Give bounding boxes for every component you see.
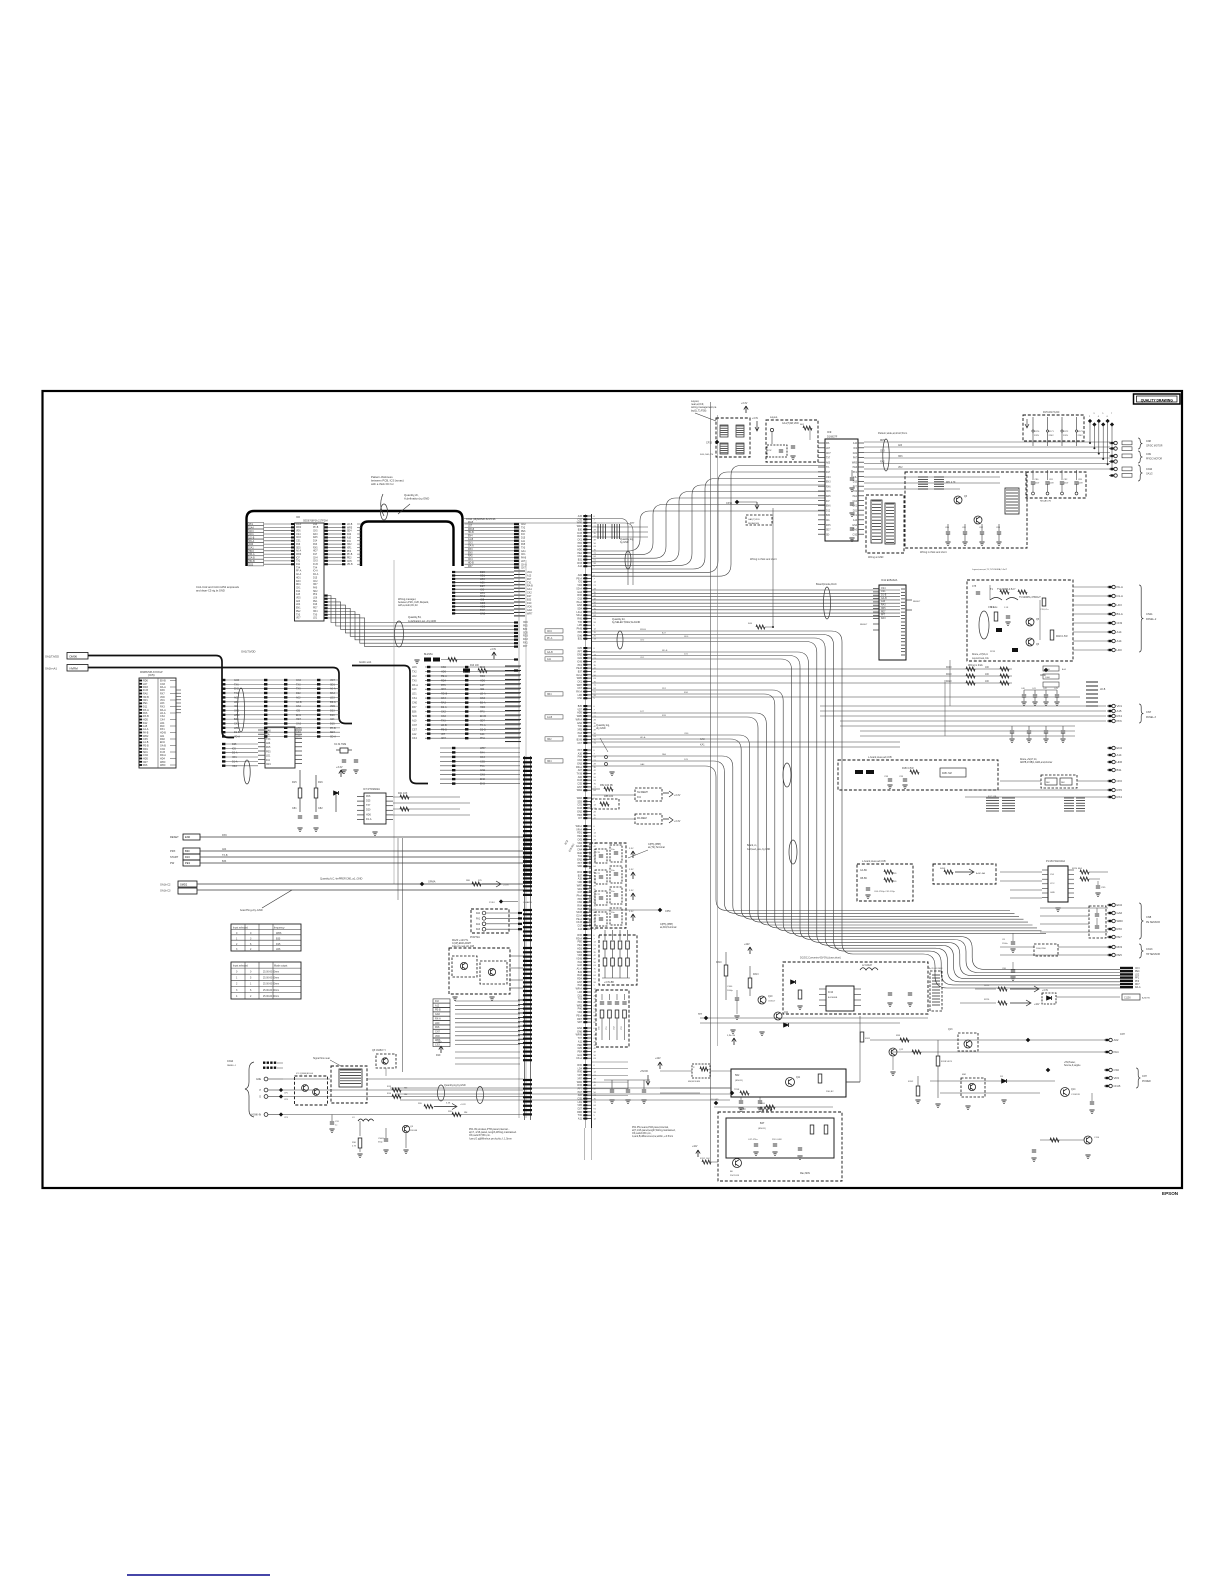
svg-text:+3.3V: +3.3V bbox=[741, 402, 748, 405]
svg-text:FA2: FA2 bbox=[476, 923, 481, 926]
wires PE bbox=[1040, 908, 1108, 932]
svg-text:R780: R780 bbox=[740, 1109, 746, 1111]
svg-text:TX0: TX0 bbox=[296, 688, 301, 691]
connector CN9 boxed rows bbox=[248, 522, 294, 566]
svg-text:MM,MODEM: MM,MODEM bbox=[688, 1081, 700, 1083]
ground MA bbox=[452, 997, 494, 1000]
svg-text:TX2: TX2 bbox=[412, 671, 417, 674]
svg-text:TX2: TX2 bbox=[521, 528, 526, 530]
svg-text:PA7: PA7 bbox=[412, 706, 417, 709]
ground P1 bbox=[1055, 908, 1060, 911]
svg-text:3.3V: 3.3V bbox=[629, 890, 634, 892]
svg-text:PF-A: PF-A bbox=[296, 570, 302, 573]
resistor labels right bbox=[1043, 666, 1067, 687]
svg-text:A11: A11 bbox=[578, 1118, 583, 1121]
svg-text:SD7: SD7 bbox=[577, 1021, 582, 1024]
svg-text:CS6: CS6 bbox=[441, 666, 446, 669]
capacitor bank CM1 bbox=[1026, 470, 1086, 503]
svg-text:TX7: TX7 bbox=[366, 804, 371, 807]
svg-text:NM: NM bbox=[464, 1112, 468, 1114]
svg-text:PE-A: PE-A bbox=[441, 675, 447, 678]
svg-text:LD1: LD1 bbox=[480, 591, 485, 595]
svg-text:D15: D15 bbox=[330, 723, 335, 726]
svg-text:D16837F: D16837F bbox=[827, 436, 838, 439]
svg-text:RD6: RD6 bbox=[480, 675, 486, 678]
svg-text:PA6: PA6 bbox=[143, 764, 148, 767]
svg-text:TP08: TP08 bbox=[734, 1089, 740, 1091]
svg-text:A10: A10 bbox=[347, 536, 352, 539]
svg-text:VCC: VCC bbox=[1050, 883, 1055, 885]
svg-text:IO7: IO7 bbox=[441, 733, 446, 736]
svg-text:D2-A: D2-A bbox=[441, 706, 447, 709]
dashed box NM1 bbox=[746, 515, 772, 525]
svg-text:PANEL-2: PANEL-2 bbox=[1146, 618, 1157, 621]
dashed box PC2 bbox=[591, 795, 619, 809]
svg-text:PA-A: PA-A bbox=[1117, 585, 1123, 589]
svg-text:+5V,Power,: +5V,Power, bbox=[1064, 1061, 1076, 1064]
wire R700 row bbox=[710, 1099, 833, 1109]
svg-text:VD6: VD6 bbox=[296, 531, 301, 533]
svg-text:R44,-NM-,TM: R44,-NM-,TM bbox=[700, 454, 713, 456]
svg-text:TX0: TX0 bbox=[296, 683, 301, 686]
svg-text:PF/DC MOTOR: PF/DC MOTOR bbox=[1146, 459, 1162, 461]
svg-text:PE3: PE3 bbox=[185, 861, 190, 865]
svg-text:R311: R311 bbox=[865, 1038, 871, 1040]
capacitor C8 pair mid bbox=[1002, 933, 1016, 980]
svg-text:CK2: CK2 bbox=[313, 581, 318, 583]
svg-text:SD-A: SD-A bbox=[330, 736, 336, 739]
wires power rows bbox=[700, 1016, 928, 1082]
dashed box CCB2 bbox=[857, 860, 913, 901]
svg-text:FA1: FA1 bbox=[476, 917, 481, 920]
svg-text:D1-B: D1-B bbox=[234, 731, 240, 734]
svg-text:C47 470u: C47 470u bbox=[748, 1139, 758, 1141]
mosfet Q9 bbox=[402, 1125, 417, 1153]
svg-text:C64 4700p C55 120p: C64 4700p C55 120p bbox=[874, 891, 896, 893]
svg-text:SED6766F0A 217P264: SED6766F0A 217P264 bbox=[303, 520, 328, 523]
svg-text:VD0: VD0 bbox=[435, 1035, 440, 1038]
svg-text:D27: D27 bbox=[480, 584, 485, 588]
svg-text:D2-B: D2-B bbox=[480, 728, 486, 731]
svg-text:SD3: SD3 bbox=[480, 601, 486, 605]
svg-text:VD-A: VD-A bbox=[234, 736, 240, 739]
svg-text:EN4: EN4 bbox=[1117, 746, 1123, 750]
svg-text:CK2: CK2 bbox=[441, 711, 446, 714]
svg-text:CN6: CN6 bbox=[480, 612, 486, 616]
IC1 right pin boxes upper bbox=[325, 523, 346, 565]
svg-text:25.00-00 00mm: 25.00-00 00mm bbox=[263, 990, 279, 992]
svg-text:WR5: WR5 bbox=[347, 527, 353, 529]
svg-text:TX1: TX1 bbox=[296, 561, 301, 563]
crystal X2 bbox=[334, 743, 352, 753]
note top-center bbox=[691, 400, 717, 421]
svg-text:+3.3V-BB: +3.3V-BB bbox=[604, 982, 614, 984]
svg-text:PE3: PE3 bbox=[347, 558, 352, 560]
stub PS out bbox=[1104, 1033, 1125, 1054]
net label GA1b-vA1 bbox=[45, 665, 88, 672]
bus heavy outer loop bbox=[247, 511, 463, 566]
svg-text:PF1: PF1 bbox=[853, 515, 858, 517]
net labels mid column bbox=[347, 524, 361, 566]
svg-text:Input selected: Input selected bbox=[233, 927, 249, 930]
svg-text:CS6: CS6 bbox=[1114, 1068, 1120, 1072]
svg-text:EN-B: EN-B bbox=[480, 715, 486, 718]
dashed box relay A bbox=[313, 1057, 367, 1103]
test point TP7 bbox=[698, 1014, 708, 1020]
dashed box MA-IF bbox=[449, 939, 523, 994]
svg-text:LD2: LD2 bbox=[412, 675, 417, 678]
wires right power bbox=[870, 1040, 1106, 1093]
svg-text:RX0: RX0 bbox=[1117, 927, 1123, 931]
svg-text:PORT2A: PORT2A bbox=[470, 936, 480, 939]
wire vertical long x402 bbox=[398, 838, 403, 1072]
svg-text:R451 NM: R451 NM bbox=[942, 773, 952, 775]
svg-text:Quantity,ft,C,-bePREP,CM1,a1,,: Quantity,ft,C,-bePREP,CM1,a1,,GND bbox=[320, 877, 363, 881]
svg-text:LD1: LD1 bbox=[412, 693, 417, 696]
svg-text:B33: B33 bbox=[234, 718, 239, 721]
svg-text:CK6: CK6 bbox=[480, 774, 485, 777]
svg-text:PF0: PF0 bbox=[480, 711, 485, 714]
svg-text:Caso,C,neat,dd,.108: Caso,C,neat,dd,.108 bbox=[452, 945, 475, 948]
svg-text:C9D: C9D bbox=[1101, 887, 1106, 889]
svg-text:GA1/2: GA1/2 bbox=[1146, 473, 1153, 476]
title block QUALITY DRAWING stamp bbox=[1134, 394, 1181, 404]
EPSON logo bbox=[1162, 1191, 1179, 1196]
resistor R36 vert bbox=[352, 1138, 363, 1157]
junction DYKO bbox=[489, 900, 533, 904]
ellipse ccb bbox=[747, 763, 797, 864]
svg-text:GND: GND bbox=[1050, 892, 1055, 894]
svg-text:PW: PW bbox=[170, 861, 175, 865]
svg-text:TX1: TX1 bbox=[480, 765, 485, 768]
svg-text:CK2: CK2 bbox=[296, 705, 301, 708]
svg-text:RA3: RA3 bbox=[313, 533, 318, 536]
svg-text:CS0: CS0 bbox=[296, 731, 301, 734]
svg-text:R88 100: R88 100 bbox=[604, 795, 614, 798]
svg-text:WR0: WR0 bbox=[296, 527, 302, 529]
svg-text:SD4: SD4 bbox=[330, 731, 335, 734]
svg-text:HONK-IN: HONK-IN bbox=[251, 1115, 261, 1117]
svg-text:1000p: 1000p bbox=[727, 990, 734, 992]
svg-text:HD-B: HD-B bbox=[468, 562, 474, 564]
svg-text:EPSON: EPSON bbox=[1162, 1191, 1179, 1196]
svg-text:A12: A12 bbox=[435, 1004, 440, 1007]
svg-text:EN1: EN1 bbox=[296, 608, 301, 610]
svg-text:PA6: PA6 bbox=[435, 1026, 440, 1029]
dashed box vert930 bbox=[928, 967, 943, 1011]
svg-text:RX6: RX6 bbox=[826, 486, 831, 488]
svg-text:CK4: CK4 bbox=[480, 756, 485, 759]
svg-text:+5V/OK: +5V/OK bbox=[640, 1071, 649, 1073]
svg-text:XR5: XR5 bbox=[881, 608, 886, 610]
svg-text:(R5611): (R5611) bbox=[758, 1128, 766, 1130]
svg-text:R702 10K: R702 10K bbox=[700, 1158, 710, 1160]
wires IC9 aux bbox=[864, 477, 1000, 489]
svg-text:WR-B: WR-B bbox=[640, 629, 646, 631]
wire vertical x773 bbox=[700, 454, 774, 629]
net label right bbox=[359, 660, 372, 664]
svg-text:L2 100uH: L2 100uH bbox=[862, 965, 872, 967]
connector CN2 matrix bbox=[222, 679, 340, 784]
svg-text:L-board,clean,ad,CCB: L-board,clean,ad,CCB bbox=[862, 860, 886, 863]
resistor R52 row bbox=[592, 784, 613, 791]
svg-text:A05: A05 bbox=[826, 461, 831, 464]
diode D3 bbox=[334, 766, 344, 812]
svg-text:GA-A: GA-A bbox=[468, 545, 474, 548]
svg-text:HD6: HD6 bbox=[1117, 760, 1123, 764]
svg-text:PA5: PA5 bbox=[266, 746, 271, 749]
svg-text:D22: D22 bbox=[347, 534, 352, 536]
svg-text:VD-B: VD-B bbox=[347, 564, 353, 566]
svg-text:+3.3V: +3.3V bbox=[490, 649, 497, 651]
svg-text:A15: A15 bbox=[1117, 709, 1122, 713]
svg-text:1000: 1000 bbox=[1045, 669, 1051, 671]
svg-text:RX-A: RX-A bbox=[435, 1017, 441, 1020]
resistor R118 bbox=[936, 1040, 952, 1098]
svg-text:220V: 220V bbox=[1049, 435, 1055, 437]
svg-text:B30: B30 bbox=[826, 515, 831, 517]
dashed box Q15 bbox=[961, 1074, 985, 1097]
svg-text:SD7: SD7 bbox=[826, 530, 831, 532]
table mode-select bbox=[231, 962, 301, 999]
arrow +3.3V top bbox=[741, 402, 748, 413]
svg-text:XR2: XR2 bbox=[547, 739, 552, 741]
note wiring manager bbox=[398, 598, 436, 623]
svg-text:1u: 1u bbox=[335, 1125, 337, 1127]
svg-text:CN14: CN14 bbox=[227, 1060, 234, 1063]
svg-text:RX2: RX2 bbox=[880, 462, 885, 464]
bus waterfall bbox=[545, 629, 1120, 988]
svg-text:CK4: CK4 bbox=[441, 697, 446, 700]
svg-text:GA1b-C3: GA1b-C3 bbox=[160, 890, 171, 893]
svg-text:RX5: RX5 bbox=[1117, 788, 1123, 792]
connector CN3 rows bbox=[412, 666, 521, 742]
svg-text:Layout,near,at,T1,TV1200PA,O.5: Layout,near,at,T1,TV1200PA,O.5x/7 bbox=[972, 568, 1008, 571]
svg-text:CN9: CN9 bbox=[1146, 453, 1151, 456]
svg-text:LD-A: LD-A bbox=[480, 693, 486, 696]
svg-text:PE-B: PE-B bbox=[435, 1009, 441, 1012]
svg-text:+42V: +42V bbox=[692, 1146, 698, 1148]
resistor row R13 bbox=[463, 649, 518, 673]
IC5 microcontroller table bbox=[139, 671, 181, 768]
svg-text:A14: A14 bbox=[1117, 639, 1122, 643]
svg-text:by,GND: by,GND bbox=[620, 541, 629, 544]
arrow spine-bottom bbox=[655, 1057, 662, 1069]
svg-text:TX-B: TX-B bbox=[222, 854, 228, 857]
svg-text:CK4: CK4 bbox=[412, 737, 417, 740]
svg-text:WR0: WR0 bbox=[1117, 919, 1124, 923]
svg-text:TX0: TX0 bbox=[313, 614, 318, 616]
svg-text:D23: D23 bbox=[330, 710, 335, 713]
svg-text:CN4: CN4 bbox=[296, 679, 302, 682]
resistor block RR bbox=[1064, 798, 1085, 811]
svg-text:D1-A: D1-A bbox=[366, 818, 372, 821]
svg-text:HD6: HD6 bbox=[480, 679, 486, 682]
svg-text:4.7K: 4.7K bbox=[352, 1146, 357, 1148]
svg-text:CS5: CS5 bbox=[480, 760, 485, 763]
svg-text:R172: R172 bbox=[1063, 431, 1069, 433]
svg-text:XR4: XR4 bbox=[266, 763, 271, 766]
svg-text:LD6: LD6 bbox=[276, 948, 281, 951]
svg-text:A-BC-BA: A-BC-BA bbox=[976, 872, 985, 875]
svg-text:A03: A03 bbox=[296, 600, 301, 603]
net label stack bbox=[1120, 967, 1141, 989]
bus fan A-to-right bbox=[325, 595, 529, 649]
note board DAC bbox=[816, 582, 837, 586]
svg-text:TX-: TX- bbox=[826, 467, 830, 469]
svg-text:VD7: VD7 bbox=[296, 618, 301, 620]
arrow +5V pw bbox=[640, 1071, 650, 1085]
capacitor C55 bbox=[378, 1128, 389, 1153]
svg-text:A-MOW: A-MOW bbox=[1142, 997, 1151, 1000]
svg-text:RX4: RX4 bbox=[1117, 714, 1123, 718]
svg-text:D2-A: D2-A bbox=[330, 701, 336, 704]
svg-text:CA-BC: CA-BC bbox=[860, 869, 867, 872]
svg-text:LD-B: LD-B bbox=[1100, 689, 1106, 691]
svg-text:GA-B: GA-B bbox=[547, 651, 553, 654]
svg-text:25.00-00 00mm: 25.00-00 00mm bbox=[263, 978, 279, 980]
svg-text:CK3: CK3 bbox=[468, 542, 473, 544]
svg-text:Layout,heat,,link: Layout,heat,,link bbox=[972, 657, 990, 660]
svg-text:R15: R15 bbox=[292, 781, 297, 784]
svg-text:IO2: IO2 bbox=[480, 688, 485, 691]
wire rail x519 bbox=[519, 525, 526, 1118]
svg-text:220V: 220V bbox=[1063, 435, 1069, 437]
svg-text:CK3: CK3 bbox=[1135, 968, 1140, 970]
svg-text:Q10: Q10 bbox=[768, 996, 773, 998]
svg-text:A15: A15 bbox=[296, 593, 301, 596]
svg-text:RD7: RD7 bbox=[1135, 984, 1140, 986]
svg-text:EN0: EN0 bbox=[468, 552, 473, 554]
svg-text:Q13: Q13 bbox=[948, 1029, 953, 1031]
svg-text:3.3V: 3.3V bbox=[629, 848, 634, 850]
svg-text:C114139: C114139 bbox=[1071, 1094, 1080, 1096]
svg-text:PE2: PE2 bbox=[296, 611, 301, 613]
dashed box LT-reg bbox=[766, 416, 818, 462]
svg-text:D1-A: D1-A bbox=[232, 760, 238, 763]
svg-text:A1-B: A1-B bbox=[468, 538, 474, 541]
svg-text:XR2: XR2 bbox=[347, 544, 352, 546]
svg-text:CN10: CN10 bbox=[1146, 468, 1153, 471]
svg-text:PF5: PF5 bbox=[441, 684, 446, 687]
svg-text:GPMA: GPMA bbox=[428, 881, 436, 884]
svg-text:CN-: CN- bbox=[826, 520, 830, 522]
svg-text:SD1: SD1 bbox=[330, 683, 335, 686]
svg-text:PE1: PE1 bbox=[313, 601, 318, 603]
svg-text:EN4: EN4 bbox=[853, 525, 858, 527]
svg-text:PA7: PA7 bbox=[853, 457, 858, 460]
svg-text:LD3: LD3 bbox=[330, 696, 335, 699]
svg-text:RX-A: RX-A bbox=[412, 684, 418, 687]
svg-text:CN3: CN3 bbox=[1117, 621, 1123, 625]
svg-text:PF6: PF6 bbox=[1117, 719, 1123, 723]
svg-text:PE7: PE7 bbox=[881, 611, 886, 613]
wires panel rows bbox=[283, 1079, 523, 1115]
svg-text:WR2: WR2 bbox=[234, 714, 240, 717]
svg-text:CK4: CK4 bbox=[468, 559, 473, 561]
svg-text:WR5: WR5 bbox=[852, 462, 858, 464]
svg-text:PE4: PE4 bbox=[1135, 971, 1140, 973]
DCDC converter box bbox=[783, 957, 928, 1015]
dashed box relay B bbox=[295, 1073, 328, 1105]
power output dashed box bbox=[718, 1107, 842, 1181]
connector CN10 rows mid bbox=[452, 570, 533, 616]
svg-text:SD4: SD4 bbox=[347, 531, 352, 533]
svg-text:CK1: CK1 bbox=[296, 588, 301, 590]
svg-text:PA4: PA4 bbox=[480, 752, 485, 755]
svg-text:R170-R173,220: R170-R173,220 bbox=[1043, 412, 1060, 414]
svg-text:TX4: TX4 bbox=[313, 567, 318, 569]
svg-text:A17: A17 bbox=[480, 684, 485, 687]
svg-text:R220: R220 bbox=[946, 681, 952, 683]
dashed box MM13 bbox=[660, 1064, 731, 1083]
MOSFET switch box bbox=[731, 1069, 860, 1097]
note quantity spine1 bbox=[620, 538, 634, 569]
svg-text:R173: R173 bbox=[1078, 431, 1084, 433]
svg-text:LD7: LD7 bbox=[826, 448, 831, 450]
svg-text:Source,if,supple: Source,if,supple bbox=[1064, 1064, 1081, 1067]
svg-text:Input selected: Input selected bbox=[233, 965, 249, 968]
svg-text:GA-B: GA-B bbox=[881, 597, 887, 600]
svg-text:ADPB,17dB(1,GMA,and,shorter: ADPB,17dB(1,GMA,and,shorter bbox=[1020, 761, 1053, 764]
label 42V source bbox=[727, 986, 734, 992]
svg-text:EN4: EN4 bbox=[468, 536, 473, 538]
bus heavy inner loop bbox=[361, 522, 454, 567]
svg-text:CN?: CN? bbox=[1142, 1075, 1147, 1078]
svg-text:D14: D14 bbox=[313, 541, 318, 543]
svg-text:IC11 E05A32A: IC11 E05A32A bbox=[881, 579, 898, 582]
svg-text:CN5: CN5 bbox=[347, 561, 352, 563]
svg-text:D12: D12 bbox=[826, 510, 831, 512]
svg-text:3.3V: 3.3V bbox=[629, 869, 634, 871]
svg-text:R225: R225 bbox=[984, 985, 990, 987]
svg-text:RX6: RX6 bbox=[222, 834, 227, 837]
resistor R152 bbox=[908, 1076, 921, 1103]
svg-text:LD0: LD0 bbox=[435, 1022, 440, 1025]
svg-text:PE7: PE7 bbox=[313, 608, 318, 610]
svg-text:CK7: CK7 bbox=[577, 742, 582, 745]
svg-text:TV/1200PA,47500x/7: TV/1200PA,47500x/7 bbox=[1019, 596, 1041, 599]
svg-text:CPM: CPM bbox=[665, 910, 670, 913]
IC8 box bbox=[866, 495, 904, 559]
svg-text:IO4: IO4 bbox=[266, 759, 271, 762]
svg-text:PF-B: PF-B bbox=[313, 527, 319, 529]
svg-text:CK3: CK3 bbox=[480, 697, 485, 700]
svg-text:CS1: CS1 bbox=[296, 541, 301, 543]
connector CN14 stubs bbox=[227, 1060, 289, 1119]
svg-text:GA1(T)VDD: GA1(T)VDD bbox=[748, 518, 760, 521]
svg-text:XR1: XR1 bbox=[347, 548, 352, 550]
svg-text:R150 0.5W: R150 0.5W bbox=[902, 768, 914, 770]
svg-text:220V: 220V bbox=[1078, 435, 1084, 437]
svg-text:PA6: PA6 bbox=[296, 543, 301, 546]
svg-text:NM: NM bbox=[404, 1094, 408, 1096]
svg-text:GA1(T)VDD: GA1(T)VDD bbox=[45, 655, 59, 659]
svg-text:M38867M8-XXXXGP: M38867M8-XXXXGP bbox=[140, 671, 163, 674]
svg-text:CS4: CS4 bbox=[881, 588, 886, 590]
svg-text:Wiring at GND: Wiring at GND bbox=[868, 556, 884, 559]
svg-text:PA4: PA4 bbox=[1114, 1050, 1120, 1054]
arrow T18 bbox=[752, 418, 759, 431]
svg-text:TX3: TX3 bbox=[266, 738, 271, 741]
svg-text:EN3: EN3 bbox=[480, 783, 485, 786]
svg-text:CN2: CN2 bbox=[521, 524, 526, 526]
svg-text:C5005: C5005 bbox=[378, 1138, 385, 1140]
note rotate right bbox=[1020, 758, 1053, 764]
svg-text:XR4: XR4 bbox=[547, 761, 552, 763]
svg-text:CK7: CK7 bbox=[521, 568, 526, 570]
wires right mid2 bbox=[965, 788, 1122, 799]
